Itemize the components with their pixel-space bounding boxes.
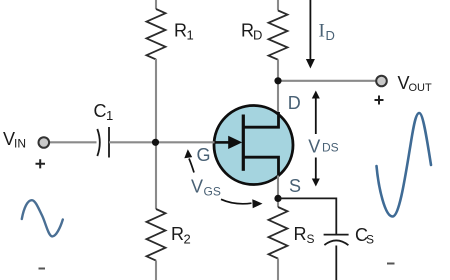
- wire right branch top stub: [277, 0, 279, 11]
- arrow VGS toward source node: [221, 199, 263, 208]
- svg-text:G: G: [197, 145, 211, 165]
- current arrow ID: [306, 0, 335, 69]
- wire RD bottom to drain junction: [277, 60, 279, 81]
- wire C1 to MOSFET gate: [109, 141, 215, 143]
- svg-text:IN: IN: [14, 137, 26, 151]
- voltage arrow VDS: [308, 91, 338, 187]
- svg-text:GS: GS: [204, 185, 221, 199]
- svg-text:1: 1: [187, 28, 194, 43]
- wire output (drain junction to VOUT terminal): [278, 80, 377, 82]
- MOSFET gate lead with arrow: [214, 136, 242, 149]
- capacitor CS: [324, 225, 374, 247]
- svg-text:D: D: [253, 28, 262, 43]
- plus mark at VIN: [36, 159, 46, 168]
- svg-text:OUT: OUT: [409, 82, 433, 94]
- svg-text:DS: DS: [322, 141, 339, 155]
- wire source node to CS: [278, 198, 336, 234]
- svg-text:S: S: [366, 233, 374, 247]
- plus mark at VOUT: [375, 96, 384, 105]
- svg-text:D: D: [326, 28, 335, 43]
- svg-text:R: R: [294, 224, 307, 244]
- resistor R2: [147, 209, 191, 261]
- MOSFET drain lead: [243, 112, 278, 127]
- label VGS: [191, 177, 221, 199]
- wire RS bottom to bottom edge: [277, 259, 279, 280]
- MOSFET channel bar: [242, 115, 245, 171]
- wire CS bottom to bottom edge: [335, 246, 337, 280]
- svg-text:S: S: [307, 232, 315, 246]
- terminal VOUT: [376, 73, 432, 94]
- wire input (VIN to C1): [49, 141, 97, 143]
- svg-text:C: C: [94, 101, 107, 121]
- svg-text:R: R: [171, 224, 184, 244]
- wire drain junction down to MOSFET: [277, 81, 279, 116]
- resistor RS: [269, 207, 315, 259]
- arrow VGS up toward G: [184, 149, 194, 172]
- output sine wave: [377, 113, 432, 217]
- svg-text:R: R: [174, 21, 187, 41]
- terminal VIN: [3, 129, 49, 151]
- junction drain node: [274, 77, 281, 84]
- wire R2 bottom to bottom edge: [155, 261, 157, 280]
- wire gate junction to R2 top: [155, 142, 157, 209]
- wire source to RS (junction): [277, 176, 279, 208]
- junction gate node: [152, 139, 159, 146]
- svg-text:V: V: [308, 137, 320, 157]
- minus mark bottom left: [39, 268, 46, 270]
- wire left branch top stub: [155, 0, 157, 9]
- svg-text:S: S: [289, 176, 301, 196]
- svg-text:1: 1: [106, 108, 113, 123]
- MOSFET Q1 body: [214, 106, 293, 185]
- svg-text:2: 2: [184, 232, 191, 247]
- svg-text:I: I: [319, 21, 325, 42]
- svg-text:V: V: [191, 177, 203, 197]
- capacitor C1: [94, 101, 114, 158]
- minus mark bottom right: [387, 263, 395, 265]
- resistor RD: [241, 11, 288, 60]
- junction source node: [274, 195, 281, 202]
- input sine wave: [22, 200, 63, 236]
- MOSFET source lead: [243, 157, 278, 176]
- wire R1 bottom to gate junction: [155, 59, 157, 142]
- resistor R1: [147, 9, 194, 59]
- svg-text:D: D: [288, 93, 301, 113]
